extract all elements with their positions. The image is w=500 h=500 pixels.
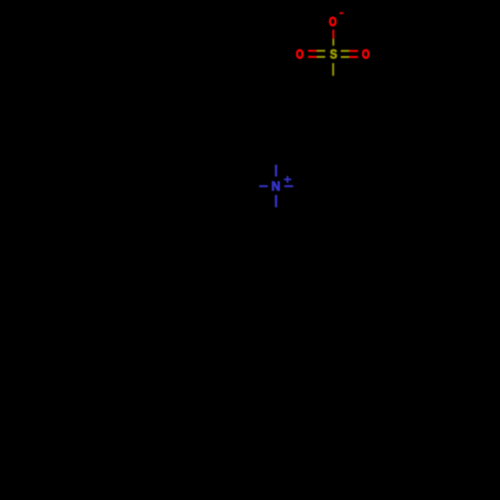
bond O- to S (upper red half) — [332, 30, 334, 39]
svg-text:S: S — [330, 48, 337, 62]
atom S (sulfur) — [330, 48, 337, 62]
bond N up to chain (blue half) — [275, 165, 277, 177]
double bond S=O left, top line olive half — [317, 50, 326, 52]
double bond S=O right, bottom line olive half — [341, 56, 350, 58]
bond N down to methyl (blue half) — [275, 195, 277, 207]
bond O- to S (lower olive half) — [332, 39, 334, 46]
atom O (left oxygen) — [296, 49, 304, 62]
double bond S=O right, bottom line red half — [349, 56, 358, 58]
charge plus on N, vertical bar — [287, 176, 289, 183]
double bond S=O left, top line red half — [308, 50, 317, 52]
bond N right to alkyl chain (blue half) — [284, 185, 293, 187]
svg-text:N: N — [271, 180, 280, 194]
double bond S=O right, top line olive half — [341, 50, 350, 52]
atom N+ (quaternary ammonium nitrogen) — [271, 180, 280, 194]
svg-text:O: O — [362, 49, 370, 62]
bond S to chain carbon (olive half) — [332, 63, 334, 76]
double bond S=O left, bottom line red half — [308, 56, 317, 58]
atom O- (top oxygen of sulfonate) — [329, 16, 337, 29]
charge plus on N, horizontal bar — [284, 179, 291, 181]
charge minus on O- — [339, 12, 343, 14]
svg-text:O: O — [296, 49, 304, 62]
double bond S=O left, bottom line olive half — [317, 56, 326, 58]
bond N left to methyl (blue half) — [259, 185, 268, 187]
double bond S=O right, top line red half — [349, 50, 358, 52]
svg-text:O: O — [329, 16, 337, 29]
atom O (right oxygen) — [362, 49, 370, 62]
